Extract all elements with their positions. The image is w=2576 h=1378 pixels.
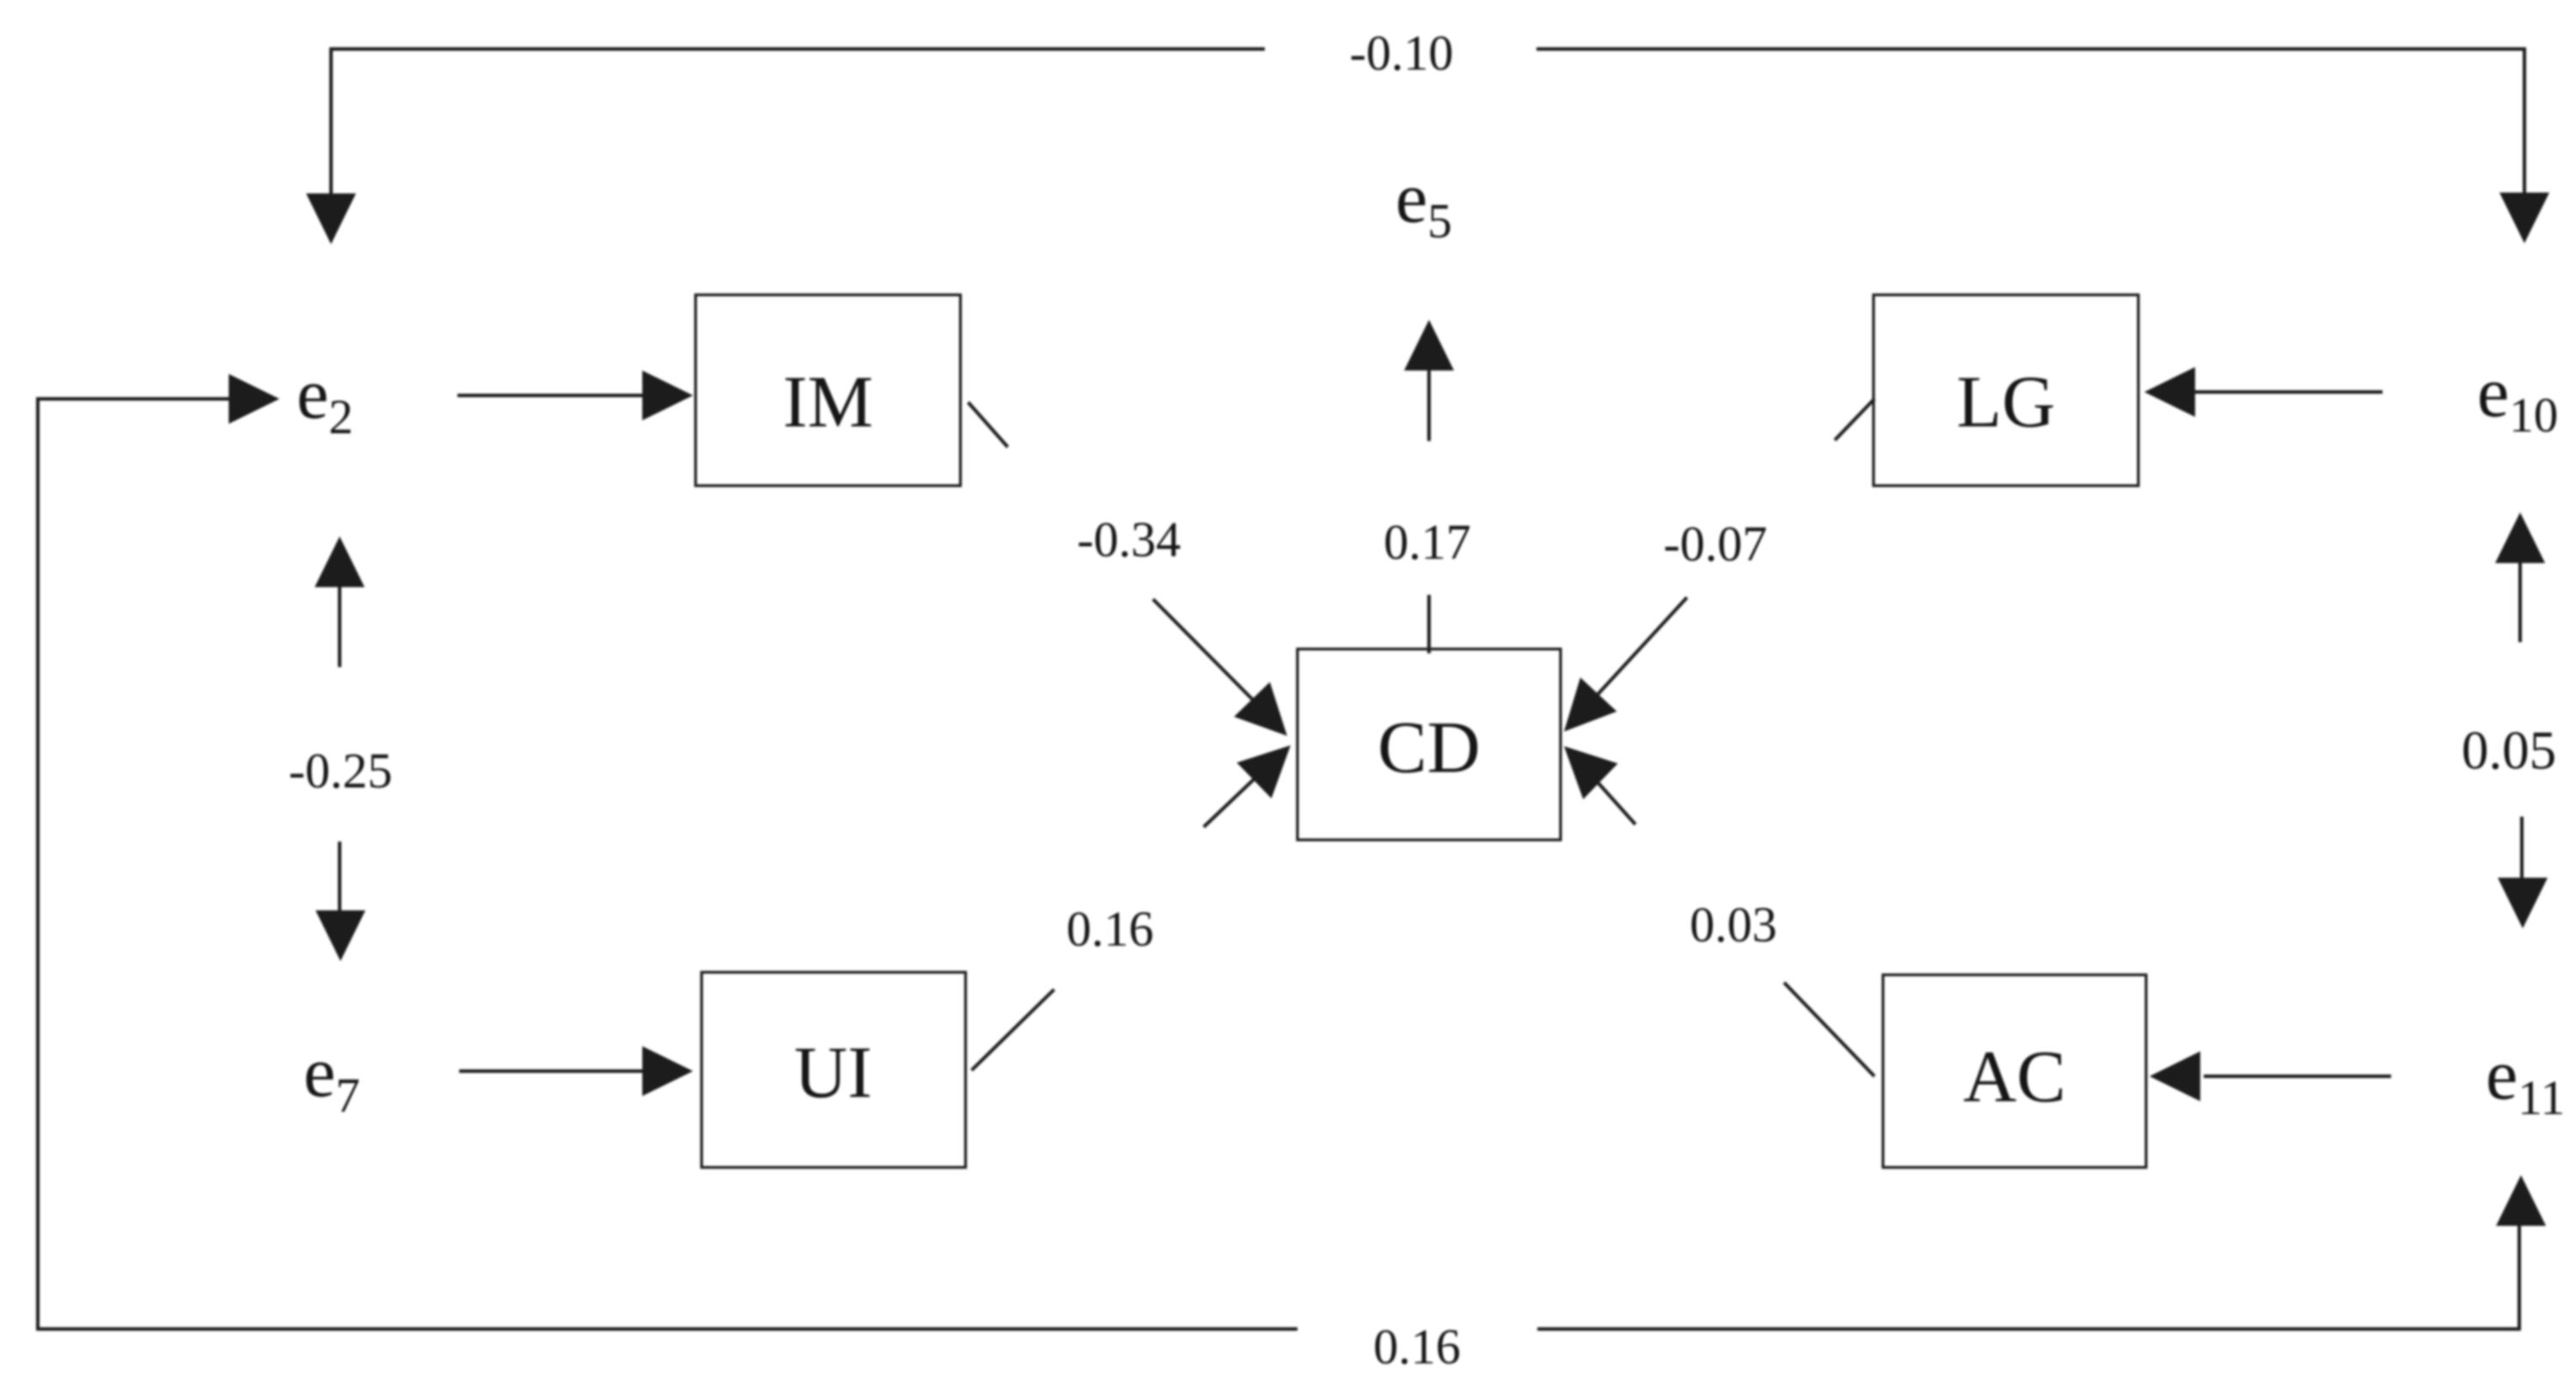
svg-text:LG: LG bbox=[1957, 360, 2056, 443]
svg-text:UI: UI bbox=[794, 1031, 873, 1113]
svg-text:0.16: 0.16 bbox=[1066, 901, 1154, 957]
svg-text:IM: IM bbox=[782, 360, 873, 443]
svg-text:CD: CD bbox=[1377, 706, 1480, 788]
svg-text:0.16: 0.16 bbox=[1373, 1319, 1461, 1375]
svg-text:0.17: 0.17 bbox=[1383, 514, 1471, 570]
svg-text:0.03: 0.03 bbox=[1690, 897, 1777, 952]
svg-text:-0.07: -0.07 bbox=[1664, 516, 1768, 572]
svg-text:0.05: 0.05 bbox=[2462, 720, 2556, 781]
svg-text:-0.34: -0.34 bbox=[1077, 511, 1181, 567]
svg-text:-0.25: -0.25 bbox=[289, 743, 393, 799]
svg-text:AC: AC bbox=[1963, 1035, 2065, 1118]
svg-text:-0.10: -0.10 bbox=[1350, 25, 1454, 81]
